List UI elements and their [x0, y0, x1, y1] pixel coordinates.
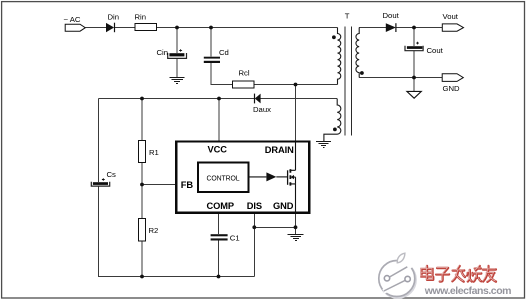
svg-text:www.elecfans.com: www.elecfans.com: [424, 285, 511, 297]
svg-text:Cout: Cout: [427, 46, 444, 55]
svg-text:CONTROL: CONTROL: [207, 175, 240, 182]
svg-text:VCC: VCC: [208, 145, 228, 155]
svg-text:FB: FB: [181, 180, 194, 190]
svg-text:DRAIN: DRAIN: [265, 145, 294, 155]
svg-text:Cd: Cd: [219, 48, 229, 57]
svg-text:GND: GND: [273, 201, 294, 211]
svg-text:C1: C1: [230, 233, 240, 242]
svg-text:Din: Din: [108, 13, 120, 22]
svg-text:T: T: [345, 12, 350, 21]
svg-text:Rcl: Rcl: [239, 69, 250, 78]
svg-text:~ AC: ~ AC: [64, 15, 81, 24]
svg-text:R1: R1: [149, 148, 159, 157]
svg-text:Dout: Dout: [383, 11, 400, 20]
svg-text:R2: R2: [149, 226, 159, 235]
svg-text:Vout: Vout: [443, 12, 459, 21]
svg-text:Rin: Rin: [135, 13, 147, 22]
svg-text:COMP: COMP: [207, 201, 235, 211]
svg-text:GND: GND: [443, 84, 461, 93]
svg-text:Cs: Cs: [107, 170, 117, 179]
svg-text:Daux: Daux: [253, 105, 271, 114]
svg-text:Cin: Cin: [157, 48, 169, 57]
svg-text:DIS: DIS: [247, 201, 262, 211]
